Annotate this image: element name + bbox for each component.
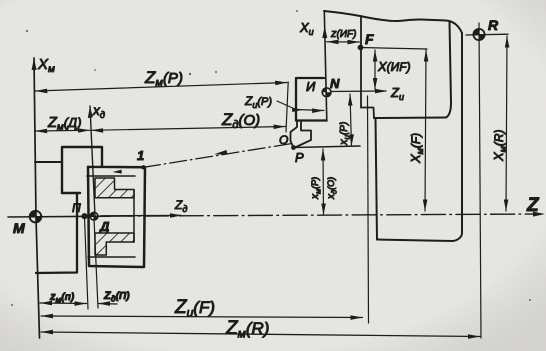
extension D bottom — [94, 218, 98, 308]
axis Z arrowhead — [533, 212, 545, 217]
trajectory dash-dot line — [144, 144, 293, 168]
dimension X(IF) line — [374, 50, 376, 90]
support bottom line — [294, 146, 361, 148]
axis Zi arrow — [331, 90, 386, 93]
cutter inner profile — [295, 121, 311, 148]
headstock stub line — [35, 161, 62, 163]
cutter outer profile — [291, 121, 298, 148]
chuck jaw strip upper — [87, 175, 135, 177]
wire Z centerline — [8, 215, 110, 218]
axis Xd vertical — [90, 106, 95, 216]
dimension Xm(P)/Xd(O) line — [322, 149, 325, 215]
point D symbol — [90, 212, 98, 220]
dimension Zm(R) line — [41, 332, 480, 337]
workpiece upper hatched section — [95, 178, 134, 198]
point F dot — [358, 45, 364, 51]
F horizontal line — [361, 48, 428, 50]
R extension vertical — [479, 23, 481, 338]
headstock upper block — [62, 147, 102, 193]
tool plate bottom edge — [374, 117, 446, 120]
axis Xi / turret left edge — [324, 11, 327, 121]
turret bottom edge — [377, 240, 452, 242]
F column line — [360, 16, 362, 108]
dimension Xi(P) line — [350, 94, 352, 146]
jaw arrowhead — [113, 170, 122, 174]
point M symbol — [30, 211, 42, 223]
dimension z(IF) line — [327, 41, 360, 43]
dimension Zm(P-pi) line — [40, 302, 87, 305]
point P (pi) dot — [81, 213, 87, 219]
dimension Zd(P-pi) line — [98, 303, 117, 306]
trajectory arrowhead — [214, 150, 228, 155]
chuck jaw strip lower — [88, 256, 135, 258]
dimension Zm(P) line — [35, 83, 287, 92]
turret right edge outer — [452, 33, 462, 241]
tool block — [296, 78, 324, 121]
turret left edge — [376, 118, 378, 240]
extension P (pi) bottom — [85, 217, 89, 309]
dimension Zd(O) line — [91, 127, 286, 131]
dimension Xm(F) line — [425, 50, 426, 211]
R crosshair horizontal — [466, 33, 508, 36]
dimension Zi(F) line — [41, 316, 363, 318]
workpiece lower hatched section — [95, 233, 134, 255]
dimension Xm(R) line — [506, 36, 507, 211]
point I symbol — [322, 88, 331, 97]
headstock lower block — [36, 193, 77, 273]
turret top wavy edge — [324, 11, 462, 33]
tool plate right edge — [446, 22, 451, 118]
workpiece end face — [133, 190, 135, 243]
extension O/P — [286, 82, 288, 132]
point R symbol — [473, 29, 484, 40]
point P dot — [291, 145, 296, 150]
tool plate step — [361, 108, 374, 119]
chuck outline — [88, 167, 145, 267]
dimension Zm(D) line — [35, 129, 90, 132]
axis Zd arrow — [101, 214, 181, 216]
dimension Zi(P) leader — [277, 101, 324, 111]
axis Xm vertical — [34, 58, 40, 338]
extension F / Zi(F) — [368, 96, 369, 323]
